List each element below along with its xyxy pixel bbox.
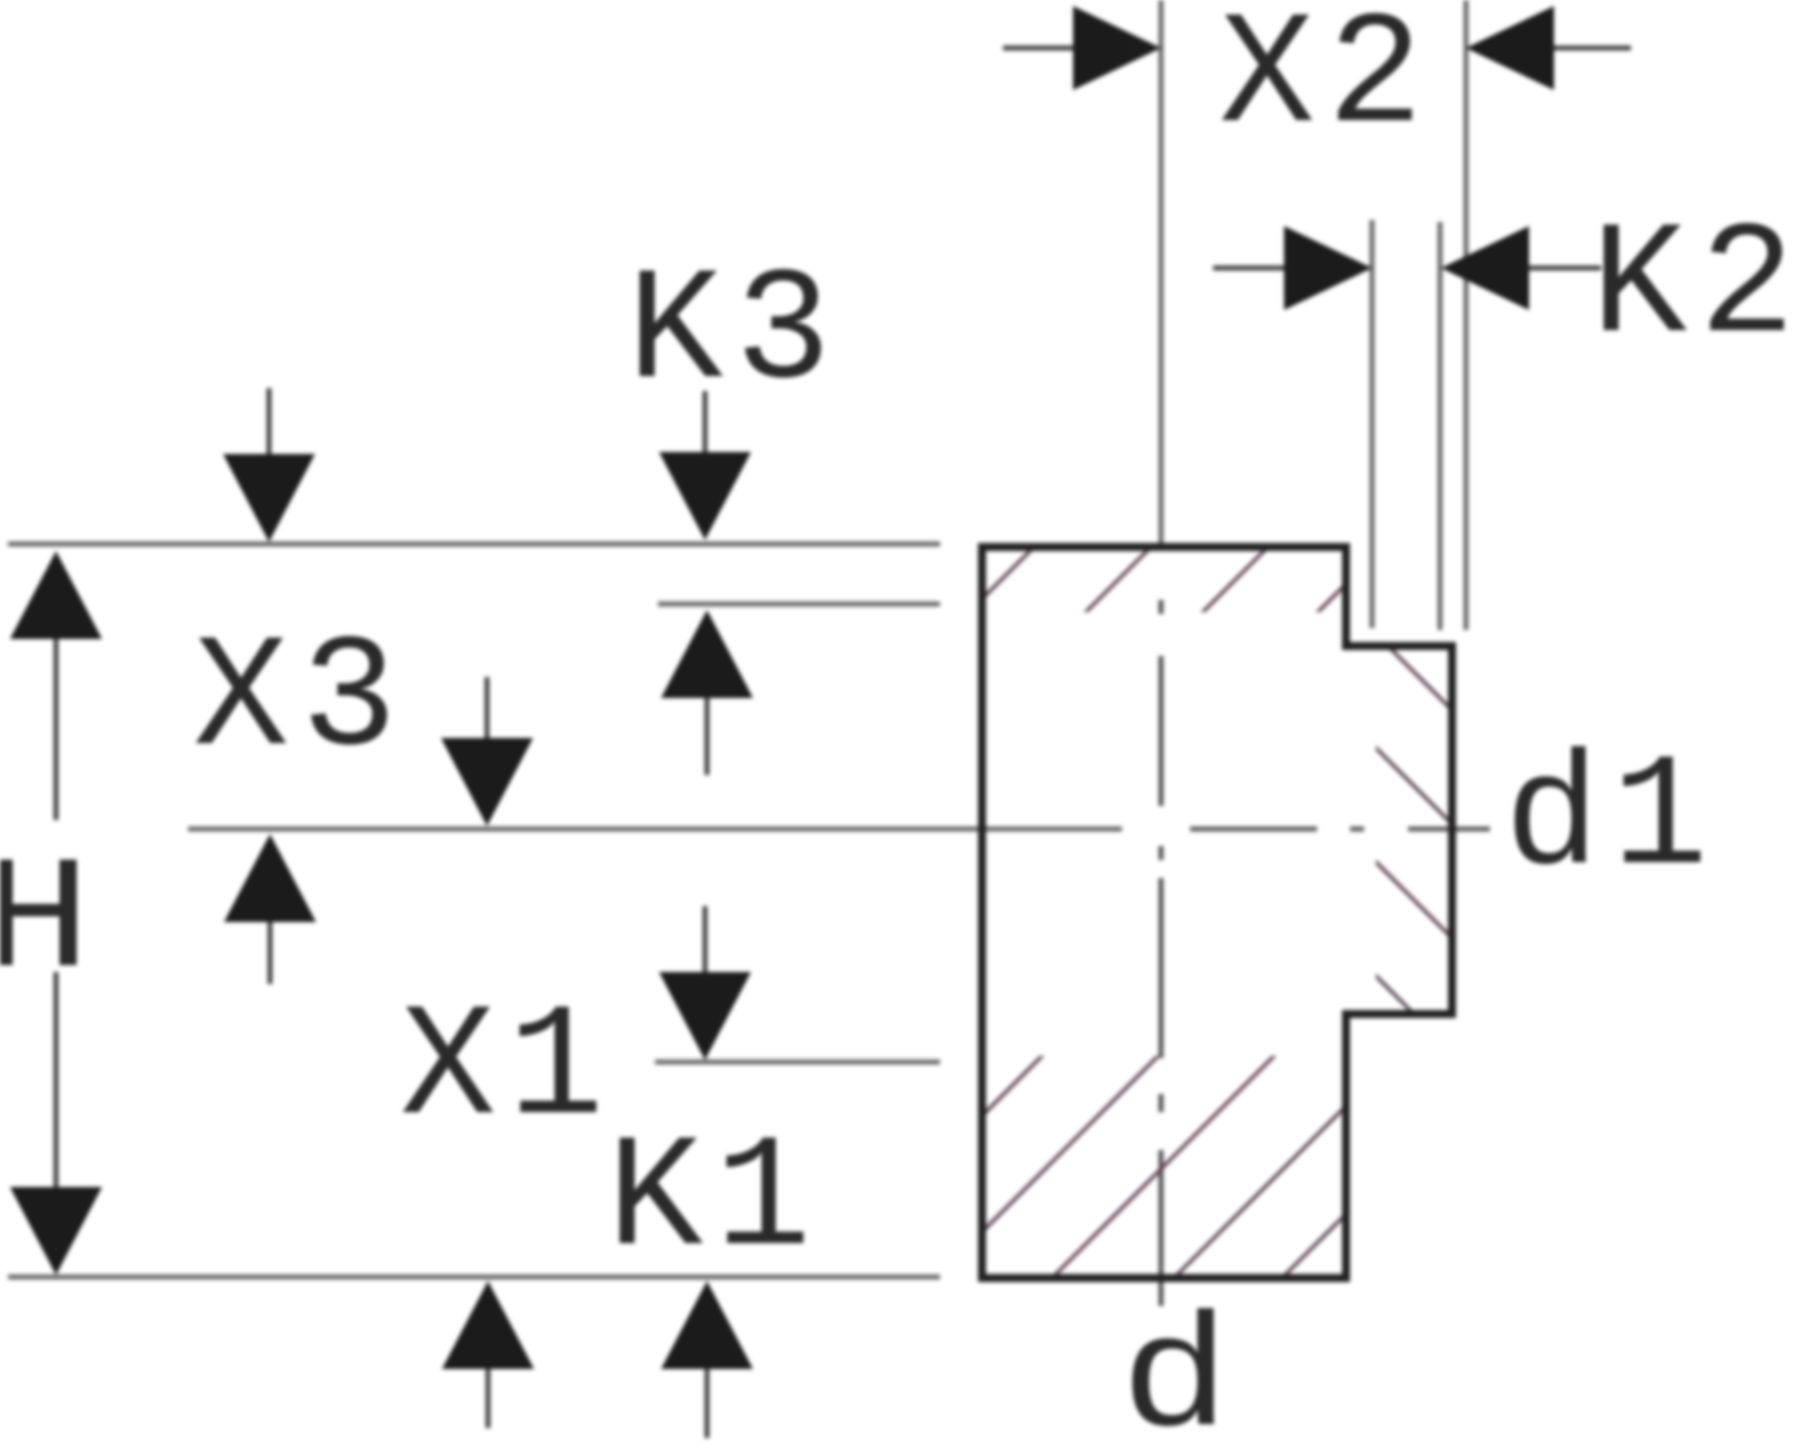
extension line: X2 right (branch end) (1464, 0, 1469, 630)
arrow K3 upper (down onto line A) (703, 391, 708, 454)
svg-text:d1: d1 (1504, 730, 1720, 911)
centerline d vertical dash-dot inside fitting (1159, 600, 1164, 1306)
svg-text:X1: X1 (400, 980, 616, 1161)
svg-text:K1: K1 (607, 1111, 823, 1292)
axis line d1 dash-dot part (1190, 827, 1490, 832)
axis line d1 solid part (188, 827, 1122, 832)
hatch bottom body band (798, 800, 1760, 1300)
dimension K2 right arrow (1527, 266, 1601, 271)
dimension X2 left arrow (1003, 46, 1075, 51)
dimension H top arrow (10, 551, 102, 639)
dimension K2 left arrow (1213, 266, 1286, 271)
svg-text:K2: K2 (1591, 198, 1800, 379)
arrow X3 lower (down onto axis d1) (485, 677, 490, 740)
svg-text:K3: K3 (627, 244, 843, 425)
extension line: K2 right (1438, 222, 1443, 630)
reference line B: top socket shoulder (658, 602, 940, 607)
arrow K1 lower (up onto line E) (705, 1367, 710, 1438)
svg-text:H: H (0, 833, 105, 1014)
dimension H bottom arrow (10, 1187, 102, 1275)
extension line: main vertical axis above fitting (1159, 0, 1164, 546)
svg-text:d: d (1120, 1292, 1244, 1451)
arrow X3 upper (down onto line A) (267, 388, 272, 456)
reference line D: bottom socket shoulder (655, 1060, 940, 1065)
reference line A: top face extension (8, 542, 940, 547)
dimension H vertical line (54, 637, 59, 1187)
extension line: K2 left (1370, 220, 1375, 628)
hatch branch socket band (1300, 558, 1500, 1100)
dimension X2 right arrow (1552, 46, 1631, 51)
arrow K3 lower (up onto line B) (705, 696, 710, 775)
fitting body outline (982, 547, 1452, 1278)
svg-text:X2: X2 (1219, 0, 1435, 169)
arrow X1 lower (up onto line E) (486, 1367, 491, 1428)
svg-text:X3: X3 (193, 611, 409, 792)
reference line E: bottom face extension (8, 1275, 940, 1280)
arrow X1 upper (up onto axis d1) (268, 920, 273, 984)
arrow K1 upper (down onto line D) (703, 906, 708, 974)
hatch top socket band (881, 500, 1430, 700)
